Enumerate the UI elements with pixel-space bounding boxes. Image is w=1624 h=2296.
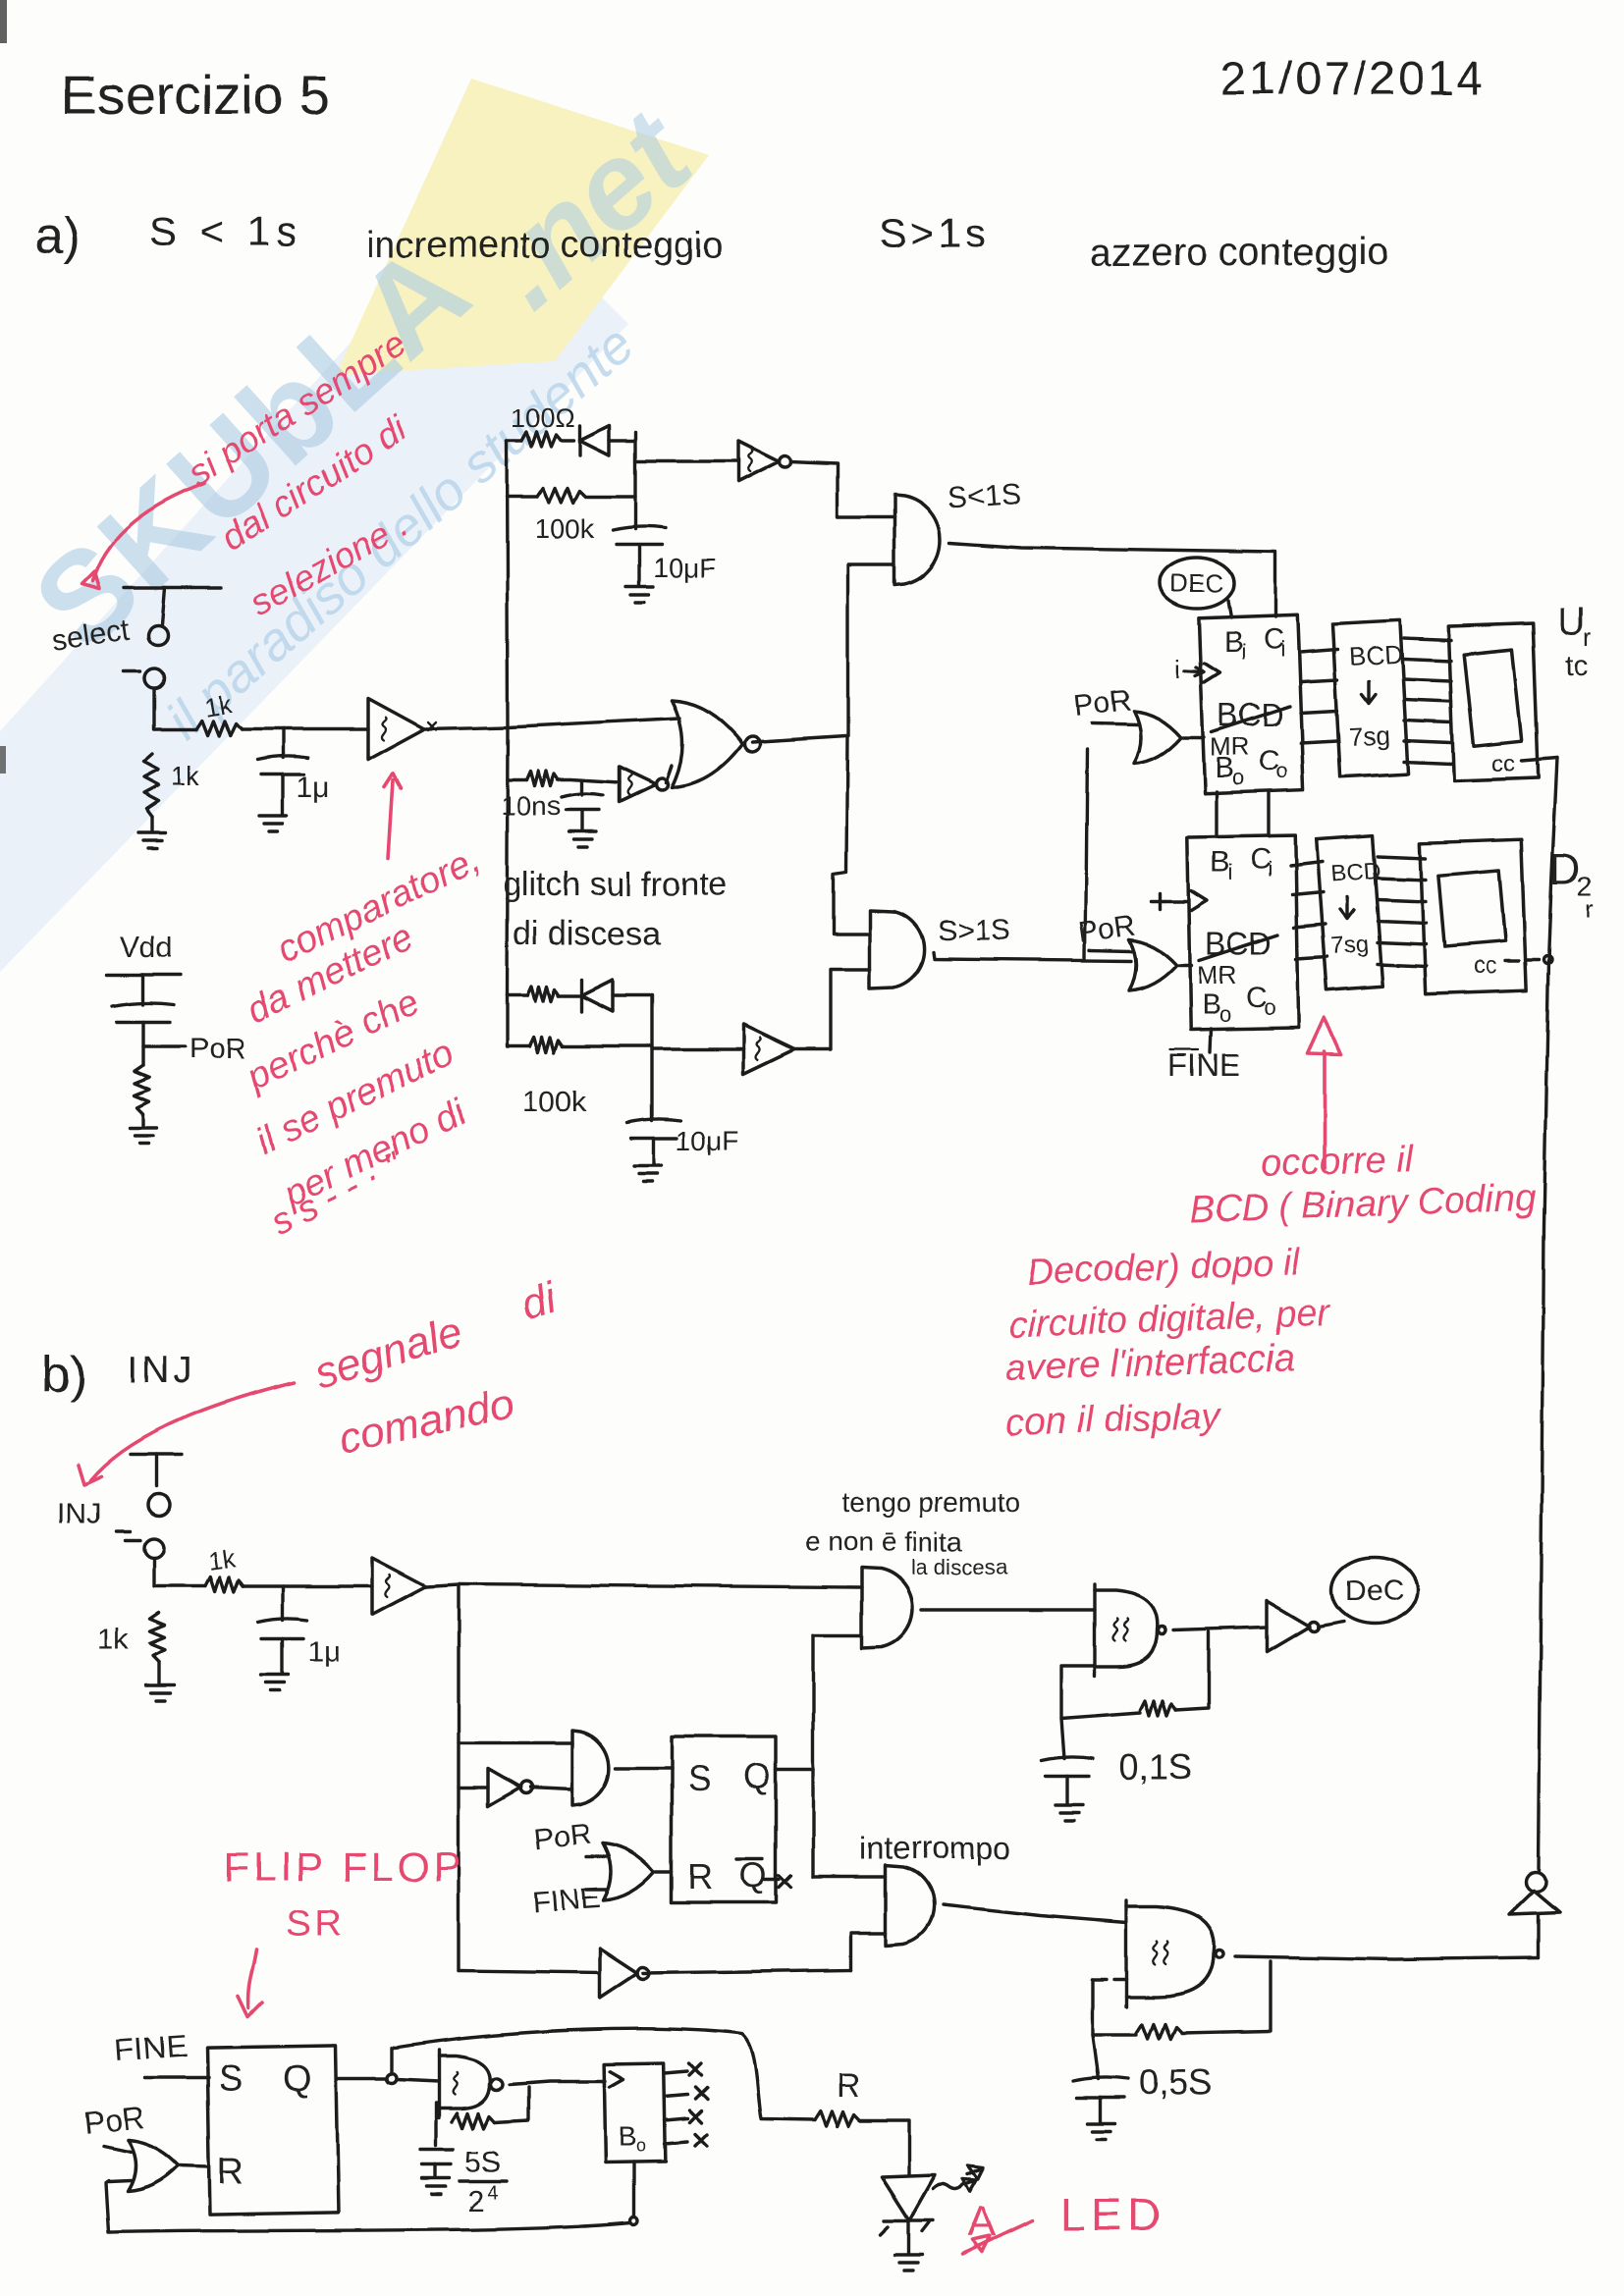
wire AND interrompo out bbox=[943, 1905, 1126, 1923]
svg-text:i: i bbox=[1268, 857, 1272, 881]
label incremento conteggio bbox=[366, 225, 723, 266]
wire PoR to OR1 bbox=[1092, 723, 1138, 724]
LED light arrows bbox=[933, 2165, 984, 2192]
label INJ switch bbox=[57, 1498, 130, 1531]
AND gate S<1s bbox=[894, 495, 940, 585]
svg-text:o: o bbox=[1219, 1002, 1231, 1027]
svg-text:Esercizio 5: Esercizio 5 bbox=[61, 64, 330, 126]
label D2r bbox=[1549, 845, 1594, 924]
wire display1 cc to right rail bbox=[1522, 758, 1557, 761]
ground pulldown a bbox=[138, 832, 166, 848]
pink note occorre il BCD bbox=[1005, 1139, 1537, 1444]
resistor 10ns branch bbox=[527, 771, 559, 785]
svg-text:7sg: 7sg bbox=[1348, 721, 1390, 752]
label 1k series a bbox=[202, 688, 235, 721]
svg-text:Vdd: Vdd bbox=[120, 932, 172, 964]
wire D1 to rail C bbox=[609, 439, 635, 442]
ellipse DEC a bbox=[1160, 558, 1234, 617]
label Vdd bbox=[120, 932, 172, 964]
schmitt inverter U2 bbox=[738, 441, 791, 482]
svg-text:azzero conteggio: azzero conteggio bbox=[1090, 231, 1389, 274]
pink note segnale di comando bbox=[309, 1273, 564, 1463]
label 100ohm bbox=[511, 403, 574, 433]
svg-text:S < 1s: S < 1s bbox=[149, 208, 302, 254]
svg-text:PoR: PoR bbox=[189, 1033, 246, 1065]
svg-text:tengo premuto: tengo premuto bbox=[842, 1487, 1020, 1518]
capacitor 10uF a bbox=[613, 526, 666, 586]
svg-text:B: B bbox=[1215, 752, 1234, 784]
RC network 2 frame bbox=[507, 995, 652, 1121]
label x on Qbar bbox=[765, 1875, 790, 1887]
AND gate S>1s bbox=[870, 910, 924, 988]
svg-text:B: B bbox=[1211, 846, 1230, 879]
svg-text:MR: MR bbox=[1197, 960, 1236, 989]
svg-text:o: o bbox=[1276, 759, 1288, 783]
wire N2 out right bbox=[1235, 1956, 1538, 1959]
wires counter2 to decoder2 bbox=[1290, 862, 1327, 959]
svg-text:e non ē finita: e non ē finita bbox=[805, 1526, 963, 1557]
svg-text:INJ: INJ bbox=[128, 1350, 195, 1391]
OR gate R ff1 bbox=[586, 1843, 672, 1900]
feedback inverter right edge bbox=[1509, 1872, 1559, 1957]
wire NOR junction down to AND2 bbox=[834, 736, 870, 934]
svg-text:1μ: 1μ bbox=[307, 1635, 341, 1668]
schmitt buffer B1 bbox=[372, 1558, 426, 1615]
ground cap 1u a bbox=[259, 816, 287, 831]
capacitor 10uF b bbox=[627, 1119, 680, 1165]
label FINE ff2 bbox=[114, 2028, 188, 2068]
svg-text:R: R bbox=[687, 1856, 713, 1896]
SR flip flop 1 bbox=[672, 1736, 776, 1902]
svg-text:b): b) bbox=[41, 1347, 86, 1404]
inverter small b bbox=[459, 1769, 572, 1806]
resistor PoR bbox=[135, 1065, 149, 1127]
label la discesa bbox=[911, 1555, 1008, 1579]
svg-text:di discesa: di discesa bbox=[513, 915, 661, 952]
label 1u b bbox=[307, 1635, 341, 1668]
svg-text:21/07/2014: 21/07/2014 bbox=[1220, 53, 1486, 105]
label FINE ff1 bbox=[531, 1882, 600, 1919]
ellipse Dec b bbox=[1331, 1557, 1418, 1624]
ground cap 10uF b bbox=[634, 1166, 662, 1182]
wire inverter to AND interrompo bbox=[850, 1933, 886, 1970]
svg-text:occorre il: occorre il bbox=[1261, 1139, 1415, 1185]
svg-text:10μF: 10μF bbox=[676, 1126, 738, 1156]
label Ur bbox=[1557, 600, 1592, 652]
label PoR vdd bbox=[189, 1033, 246, 1065]
resistor RC2 top bbox=[527, 987, 559, 1001]
wire AND hold out bbox=[922, 1608, 1095, 1611]
Vdd symbol bbox=[107, 975, 180, 1004]
svg-text:comando: comando bbox=[334, 1379, 517, 1464]
label interrompo bbox=[860, 1831, 1010, 1866]
wire B1 out main b bbox=[426, 1584, 862, 1587]
svg-text:7sg: 7sg bbox=[1330, 931, 1370, 960]
wire Q to and-hold and interrompo bbox=[776, 1635, 886, 1877]
svg-text:B: B bbox=[1223, 626, 1243, 659]
label PoR ff2 bbox=[81, 2100, 146, 2141]
switch INJ contact 1 bbox=[148, 1494, 170, 1516]
binary counter box B bbox=[604, 2062, 666, 2162]
wire N1 to buffer bbox=[1174, 1628, 1267, 1630]
svg-text:100k: 100k bbox=[535, 513, 596, 544]
wire U5 to AND2 bbox=[794, 969, 870, 1049]
resistor 100k b bbox=[529, 1038, 563, 1052]
date 21/07/2014 bbox=[1220, 53, 1486, 105]
svg-text:SR: SR bbox=[287, 1903, 345, 1945]
svg-text:10ns: 10ns bbox=[501, 790, 561, 821]
capacitor 10ns bbox=[562, 781, 603, 830]
svg-text:1μ: 1μ bbox=[297, 772, 330, 804]
ground cap 5s24 bbox=[422, 2178, 450, 2194]
wire INJ to node bbox=[154, 1559, 205, 1586]
pink arrow flip flop bbox=[239, 1949, 263, 2017]
label glitch sul fronte bbox=[503, 866, 728, 903]
wire OR2 to MR2 bbox=[1178, 963, 1191, 966]
svg-text:avere l'interfaccia: avere l'interfaccia bbox=[1005, 1338, 1296, 1389]
svg-text:PoR: PoR bbox=[532, 1818, 592, 1856]
svg-text:a): a) bbox=[35, 208, 81, 265]
svg-text:S: S bbox=[218, 2058, 243, 2100]
label 1k pulldown a bbox=[171, 761, 201, 791]
resistor 1k pulldown b bbox=[150, 1613, 165, 1684]
svg-text:1k: 1k bbox=[206, 1543, 238, 1576]
comparator buffer U1 bbox=[368, 699, 436, 760]
AND gate interrompo bbox=[886, 1866, 934, 1946]
pink note comparatore block bbox=[241, 838, 486, 1244]
wire N3 to counter B bbox=[510, 2081, 605, 2084]
svg-text:FLIP FLOP: FLIP FLOP bbox=[224, 1843, 464, 1890]
svg-text:interrompo: interrompo bbox=[860, 1831, 1010, 1866]
svg-text:0,5S: 0,5S bbox=[1139, 2062, 1212, 2103]
label a) bbox=[35, 208, 81, 265]
svg-text:i: i bbox=[1174, 654, 1180, 683]
capacitor PoR bbox=[113, 1002, 174, 1065]
label azzero conteggio bbox=[1090, 231, 1389, 274]
capacitor 0.1s bbox=[1042, 1719, 1093, 1804]
NOR gate U3 bbox=[672, 701, 760, 787]
label PoR or2 bbox=[1076, 909, 1137, 949]
resistor 1k series a bbox=[196, 721, 242, 735]
label S>1S bbox=[938, 915, 1010, 947]
BCD to 7seg decoder 1 bbox=[1332, 620, 1408, 776]
N3 feedback loop bbox=[436, 2087, 528, 2128]
label 100k b bbox=[522, 1086, 587, 1118]
watermark yellow note bbox=[336, 79, 709, 375]
inverter b low bbox=[459, 1949, 850, 1998]
watermark il paradiso dello studente bbox=[154, 313, 645, 751]
wire AND set to S bbox=[616, 1766, 672, 1769]
long feedback wire right edge bbox=[1539, 758, 1557, 1871]
resistor 100k a bbox=[537, 488, 586, 503]
svg-text:i: i bbox=[1228, 860, 1233, 884]
watermark SKUOLA text bbox=[7, 216, 496, 676]
wire RC2 to buffer U5 bbox=[652, 1047, 743, 1050]
label select bbox=[50, 614, 132, 657]
schmitt NAND N2 bbox=[1126, 1900, 1223, 2006]
ground cap 0.5s bbox=[1088, 2123, 1115, 2139]
comparator buffer U5 bbox=[743, 1025, 794, 1074]
capacitor 5s24 bbox=[420, 2122, 454, 2177]
schmitt inverter U4 bbox=[619, 767, 668, 802]
counter1 clock input arrow bbox=[1174, 654, 1204, 683]
switch select top bar bbox=[124, 588, 221, 624]
label 10uF b bbox=[676, 1126, 738, 1156]
svg-text:i: i bbox=[1280, 637, 1285, 662]
SR flip flop 2 bbox=[207, 2046, 339, 2215]
wire PoR branch bbox=[143, 1044, 186, 1047]
svg-text:PoR: PoR bbox=[1072, 684, 1132, 722]
wire R to LED bbox=[860, 2120, 909, 2175]
counter2 clock input bbox=[1151, 893, 1187, 909]
label FINE a bbox=[1168, 1047, 1240, 1083]
BCD counter 2 bbox=[1187, 835, 1298, 1030]
wire Q ff2 to junction bbox=[337, 2073, 397, 2083]
svg-text:Q: Q bbox=[283, 2058, 312, 2100]
label 1k pulldown b bbox=[98, 1624, 131, 1656]
svg-text:LED: LED bbox=[1060, 2189, 1165, 2240]
ground cap 0.1s bbox=[1056, 1805, 1083, 1821]
svg-text:r: r bbox=[1585, 894, 1594, 924]
svg-text:BCD: BCD bbox=[1330, 858, 1381, 887]
svg-text:FINE: FINE bbox=[531, 1882, 600, 1919]
ground cap 10ns bbox=[568, 831, 596, 847]
svg-text:100k: 100k bbox=[522, 1086, 587, 1118]
svg-text:con il display: con il display bbox=[1005, 1395, 1222, 1444]
svg-text:S<1S: S<1S bbox=[947, 478, 1021, 515]
pink label A LED bbox=[962, 2189, 1165, 2254]
svg-text:cc: cc bbox=[1491, 751, 1515, 777]
AND gate set bbox=[572, 1731, 609, 1805]
switch select contact 1 bbox=[148, 625, 168, 645]
wire trunk to AND set bbox=[459, 1741, 572, 1744]
svg-text:R: R bbox=[217, 2151, 244, 2192]
svg-text:di: di bbox=[515, 1273, 563, 1329]
N1 feedback loop bbox=[1061, 1632, 1209, 1719]
resistor 1k series b bbox=[205, 1577, 243, 1592]
pink note si porta sempre dal circuito di selezione bbox=[181, 323, 415, 623]
label PoR or1 bbox=[1072, 684, 1132, 722]
ground cap 1u b bbox=[261, 1675, 289, 1690]
7seg display 2 bbox=[1420, 839, 1526, 994]
svg-text:Q: Q bbox=[739, 1854, 767, 1895]
label e non e finita bbox=[805, 1526, 963, 1557]
AND gate hold B2 bbox=[862, 1568, 913, 1648]
svg-text:glitch sul fronte: glitch sul fronte bbox=[503, 866, 728, 903]
svg-text:incremento conteggio: incremento conteggio bbox=[366, 225, 723, 266]
svg-text:PoR: PoR bbox=[81, 2100, 146, 2141]
title Esercizio 5 bbox=[61, 64, 330, 126]
svg-text:PoR: PoR bbox=[1076, 909, 1137, 949]
schmitt NAND N1 bbox=[1095, 1584, 1166, 1677]
svg-text:DeC: DeC bbox=[1345, 1575, 1404, 1608]
svg-text:B: B bbox=[619, 2121, 637, 2152]
label 10ns bbox=[501, 790, 561, 821]
svg-text:1k: 1k bbox=[171, 761, 201, 791]
svg-text:o: o bbox=[636, 2136, 646, 2156]
svg-text:FINE: FINE bbox=[114, 2028, 188, 2068]
wire U2 to AND1 bbox=[791, 461, 894, 517]
svg-text:R: R bbox=[837, 2067, 861, 2105]
pink arrow to select bbox=[81, 483, 204, 589]
OR gate reset 1 bbox=[1134, 711, 1181, 764]
svg-text:1k: 1k bbox=[98, 1624, 131, 1656]
rail C vertical bbox=[633, 432, 636, 529]
node A main wire a bbox=[242, 727, 368, 730]
schmitt NAND N3 bbox=[439, 2050, 503, 2118]
wire AND2 to OR1 vertical bbox=[1085, 750, 1087, 959]
wire display2 cc link bbox=[1505, 956, 1551, 964]
svg-text:4: 4 bbox=[487, 2182, 498, 2204]
svg-text:DEC: DEC bbox=[1170, 568, 1224, 598]
svg-text:i: i bbox=[1241, 640, 1246, 665]
BCD to 7seg decoder 2 bbox=[1317, 835, 1383, 990]
ground pulldown b bbox=[146, 1685, 174, 1701]
resistor R led bbox=[815, 2111, 860, 2126]
label tengo premuto bbox=[842, 1487, 1020, 1518]
wire counter1 to counter2 links bbox=[1217, 792, 1269, 836]
scan artifact top-left corner bbox=[0, 0, 7, 43]
scan artifact left edge bbox=[0, 746, 6, 774]
wires decoder2 to display2 bbox=[1378, 856, 1426, 966]
wire Q up to AND hold bbox=[813, 1633, 862, 1636]
watermark blue ribbon bbox=[0, 187, 628, 972]
counter B outputs x bbox=[665, 2063, 707, 2146]
svg-text:100Ω: 100Ω bbox=[511, 403, 574, 433]
wire NOR out up to AND1 bbox=[752, 565, 894, 742]
svg-text:tc: tc bbox=[1565, 650, 1588, 682]
wire junction to R resistor curve bbox=[392, 2029, 815, 2120]
wires decoder1 to display1 bbox=[1404, 638, 1451, 764]
svg-text:r: r bbox=[1583, 622, 1592, 652]
label S > 1s bbox=[879, 210, 990, 256]
label 5S over 2^4 bbox=[460, 2146, 507, 2217]
resistor 100ohm bbox=[521, 432, 561, 447]
svg-text:5S: 5S bbox=[465, 2146, 502, 2178]
svg-text:la discesa: la discesa bbox=[911, 1555, 1008, 1579]
label 100k a bbox=[535, 513, 596, 544]
svg-text:S>1S: S>1S bbox=[938, 915, 1010, 947]
wire counter B feedback to OR ff2 bbox=[105, 2162, 638, 2232]
capacitor 0.5s bbox=[1073, 2035, 1128, 2122]
label INJ title bbox=[128, 1350, 195, 1391]
RC network 1 top branch wire bbox=[507, 439, 573, 442]
wire AND2 out bbox=[933, 952, 1131, 961]
label PoR ff1 bbox=[532, 1818, 592, 1856]
svg-text:cc: cc bbox=[1473, 953, 1496, 980]
wire switch to node A bbox=[154, 689, 196, 729]
wire PoR to OR2 bbox=[1090, 950, 1131, 951]
ground cap 10uF a bbox=[625, 587, 653, 603]
OR gate R ff2 bbox=[103, 2140, 208, 2191]
resistor 1k pulldown a bbox=[143, 754, 158, 831]
label b) bbox=[41, 1347, 86, 1404]
svg-text:2: 2 bbox=[467, 2185, 484, 2217]
svg-text:FINE: FINE bbox=[1168, 1047, 1240, 1083]
svg-text:o: o bbox=[1264, 995, 1275, 1020]
label 10uF a bbox=[653, 553, 716, 583]
OR gate reset 2 bbox=[1129, 939, 1176, 990]
svg-text:B: B bbox=[1202, 988, 1221, 1021]
wire OR1 to MR1 bbox=[1183, 735, 1204, 738]
svg-text:Q: Q bbox=[743, 1756, 771, 1796]
ground PoR bbox=[130, 1128, 157, 1144]
pink arrow occorre bbox=[1308, 1018, 1341, 1168]
svg-text:o: o bbox=[1232, 766, 1244, 790]
label 1k series b bbox=[206, 1543, 238, 1576]
wires counter1 to decoder1 bbox=[1301, 650, 1337, 743]
capacitor 1u b bbox=[258, 1586, 307, 1674]
svg-text:10μF: 10μF bbox=[653, 553, 716, 583]
label R led bbox=[837, 2067, 861, 2105]
vertical rail node B bbox=[507, 441, 508, 995]
label 1u a bbox=[297, 772, 330, 804]
wire FINE to S ff2 bbox=[144, 2076, 208, 2079]
LED diode bbox=[880, 2175, 935, 2253]
svg-text:S>1s: S>1s bbox=[879, 210, 990, 256]
diode D2 bbox=[581, 980, 613, 1011]
wire rail C to buffer U2 bbox=[635, 459, 738, 462]
label S<1S bbox=[947, 478, 1021, 515]
pink note FLIP FLOP SR bbox=[224, 1843, 464, 1945]
svg-text:segnale: segnale bbox=[309, 1308, 468, 1398]
pink arrow comparatore bbox=[384, 774, 401, 858]
label tc bbox=[1565, 650, 1588, 682]
BCD counter 1 bbox=[1199, 614, 1304, 793]
branch 10ns wire bbox=[508, 779, 619, 782]
ground LED bbox=[894, 2255, 922, 2270]
N2 feedback loop bbox=[1093, 1961, 1271, 2039]
7seg display 1 bbox=[1448, 623, 1538, 781]
switch INJ top bar bbox=[131, 1454, 183, 1486]
label 0,5S bbox=[1139, 2062, 1212, 2103]
switch INJ contact 2 bbox=[125, 1538, 164, 1558]
wire U4 to NOR bbox=[666, 766, 672, 782]
switch select contact 2 bbox=[124, 668, 164, 688]
svg-text:BCD: BCD bbox=[1348, 639, 1403, 671]
wire node to buffer b bbox=[243, 1584, 372, 1587]
RC network 1 bottom branch bbox=[507, 495, 635, 498]
svg-text:U: U bbox=[1557, 600, 1586, 643]
wire U1 out to NOR bbox=[424, 719, 679, 729]
wire AND1 out to counter bbox=[949, 543, 1275, 616]
vertical trunk b bbox=[457, 1584, 460, 1971]
svg-text:Decoder) dopo il: Decoder) dopo il bbox=[1026, 1242, 1303, 1293]
label di discesa bbox=[513, 915, 661, 952]
buffer to Dec bbox=[1267, 1601, 1343, 1652]
pink arrow INJ bbox=[79, 1382, 295, 1484]
label 0,1S bbox=[1119, 1746, 1192, 1787]
watermark .net text bbox=[459, 82, 719, 335]
svg-text:INJ: INJ bbox=[57, 1498, 101, 1530]
svg-text:BCD ( Binary Coding: BCD ( Binary Coding bbox=[1189, 1178, 1537, 1231]
svg-text:0,1S: 0,1S bbox=[1119, 1746, 1192, 1787]
wire FINE counter2 bbox=[1210, 1029, 1211, 1052]
wire junction to NAND clock bbox=[397, 2079, 439, 2081]
capacitor 1u a bbox=[257, 729, 308, 815]
diode D1 bbox=[579, 426, 609, 455]
label S < 1s bbox=[149, 208, 302, 254]
svg-text:S: S bbox=[687, 1758, 711, 1798]
